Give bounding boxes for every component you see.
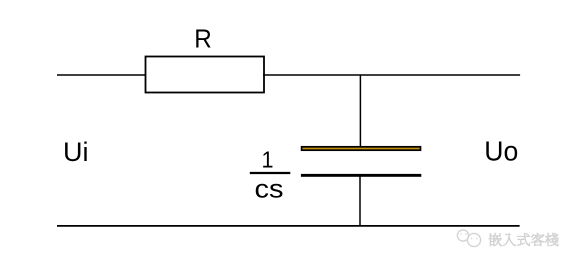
watermark logo (two faint chat-bubble circles) <box>457 230 480 247</box>
wire: bottom horizontal rail <box>57 225 520 227</box>
svg-text:Uo: Uo <box>484 135 518 166</box>
wire: vertical from top wire down to capacitor top plate <box>359 75 361 147</box>
svg-text:R: R <box>194 25 212 53</box>
resistor R <box>146 57 265 93</box>
wire: top-left horizontal from input to resistor <box>57 74 146 76</box>
svg-text:1: 1 <box>262 147 274 173</box>
capacitor C top plate (gold filled) <box>302 147 421 150</box>
svg-text:Ui: Ui <box>63 137 89 167</box>
svg-text:cs: cs <box>255 174 284 204</box>
wire: vertical from capacitor bottom plate to bottom wire <box>359 176 361 226</box>
watermark text 嵌入式客栈 <box>489 233 559 246</box>
fraction bar of 1/cs <box>250 172 290 174</box>
wire: top horizontal from resistor to output <box>263 74 520 76</box>
capacitor C bottom plate <box>301 174 421 177</box>
